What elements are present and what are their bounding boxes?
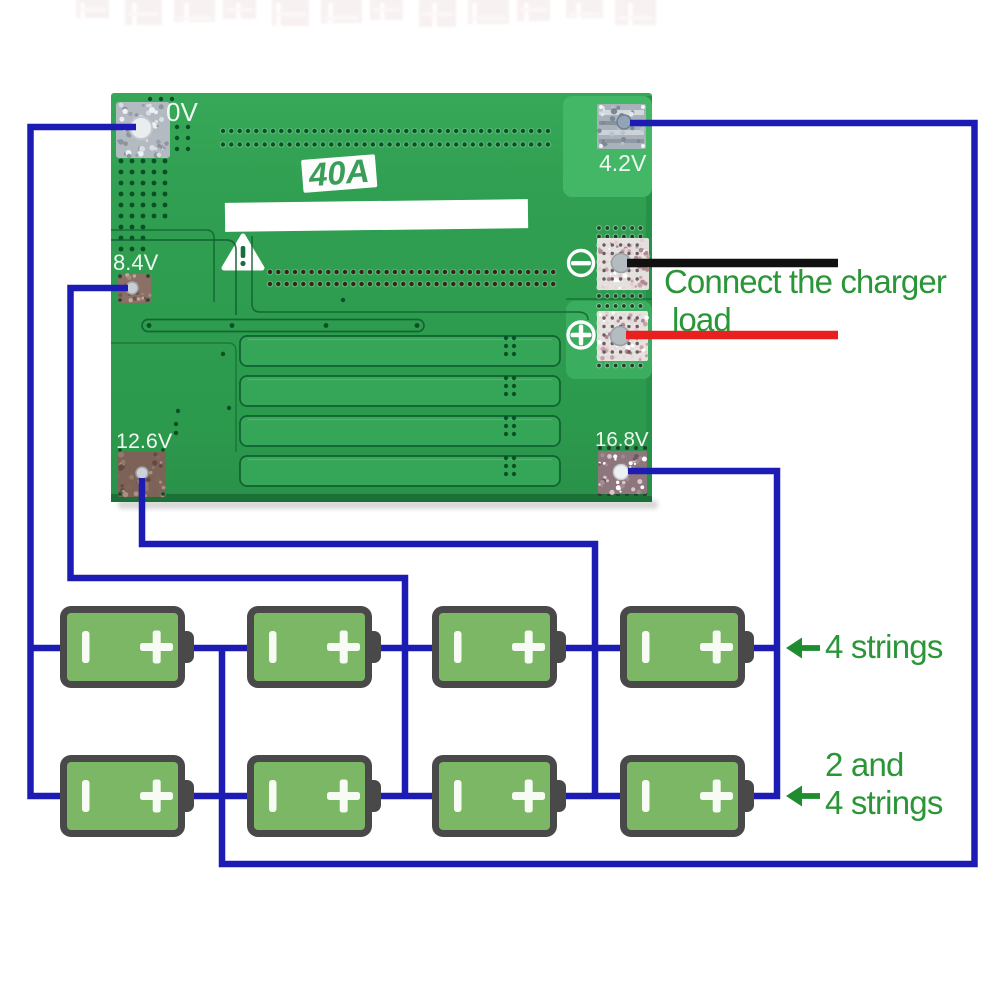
svg-text:4.2V: 4.2V <box>599 150 647 176</box>
svg-text:4 strings: 4 strings <box>825 784 943 821</box>
svg-text:0V: 0V <box>166 97 198 127</box>
svg-text:12.6V: 12.6V <box>116 429 173 453</box>
svg-text:40A: 40A <box>306 152 370 194</box>
svg-text:load: load <box>672 301 731 338</box>
svg-text:8.4V: 8.4V <box>113 250 159 275</box>
svg-text:4 strings: 4 strings <box>825 628 943 665</box>
svg-text:Connect the charger: Connect the charger <box>664 263 947 300</box>
svg-text:2 and: 2 and <box>825 746 904 783</box>
svg-text:16.8V: 16.8V <box>595 428 649 451</box>
